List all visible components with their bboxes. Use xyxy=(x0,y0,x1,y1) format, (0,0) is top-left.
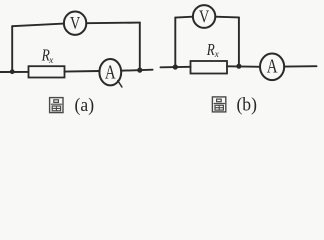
ammeter A (a) xyxy=(99,59,121,85)
wire: (a) resistor to ammeter xyxy=(65,70,100,73)
svg-text:V: V xyxy=(199,6,209,26)
wire: (a) ammeter to right terminal xyxy=(121,70,152,71)
svg-text:(a): (a) xyxy=(75,95,95,116)
ammeter A (b) xyxy=(260,54,284,81)
svg-text:R: R xyxy=(206,40,215,59)
caption: glyph 图 (a) xyxy=(50,98,63,113)
node: junction dot (a) right xyxy=(137,68,142,73)
svg-text:V: V xyxy=(70,13,80,33)
svg-text:x: x xyxy=(48,55,53,65)
voltmeter V (b) xyxy=(193,5,215,28)
wire: (a) right vertical branch xyxy=(139,23,141,71)
svg-text:(b): (b) xyxy=(236,95,257,116)
wire: (a) top right segment xyxy=(86,22,140,25)
caption: glyph 图 (b) xyxy=(212,97,225,112)
svg-text:x: x xyxy=(214,49,219,59)
resistor Rx (a) body xyxy=(29,66,65,77)
node: junction dot (b) right xyxy=(236,64,241,69)
wire: (a) top left segment xyxy=(12,24,64,27)
node: junction dot (b) left xyxy=(173,64,178,69)
label Rx (b) xyxy=(206,40,219,59)
stray stroke under ammeter (a) xyxy=(118,81,122,87)
resistor Rx (b) body xyxy=(191,61,228,74)
voltmeter V (a) xyxy=(64,12,86,35)
wire: (b) right vertical branch xyxy=(238,17,240,66)
wire: (b) top right segment xyxy=(215,16,239,19)
svg-text:A: A xyxy=(105,63,116,84)
svg-text:A: A xyxy=(267,57,278,78)
node: junction dot (a) left xyxy=(10,69,15,74)
wire: (b) resistor to ammeter xyxy=(227,65,260,68)
wire: (a) bottom-left lead xyxy=(1,71,29,73)
wire: (b) ammeter to right terminal xyxy=(284,65,316,67)
wire: (b) top left segment xyxy=(175,16,193,19)
wire: (a) left vertical branch xyxy=(11,26,13,71)
label Rx (a) xyxy=(41,45,53,65)
wire: (b) bottom-left lead xyxy=(161,66,191,69)
wire: (b) left vertical branch xyxy=(174,18,176,67)
